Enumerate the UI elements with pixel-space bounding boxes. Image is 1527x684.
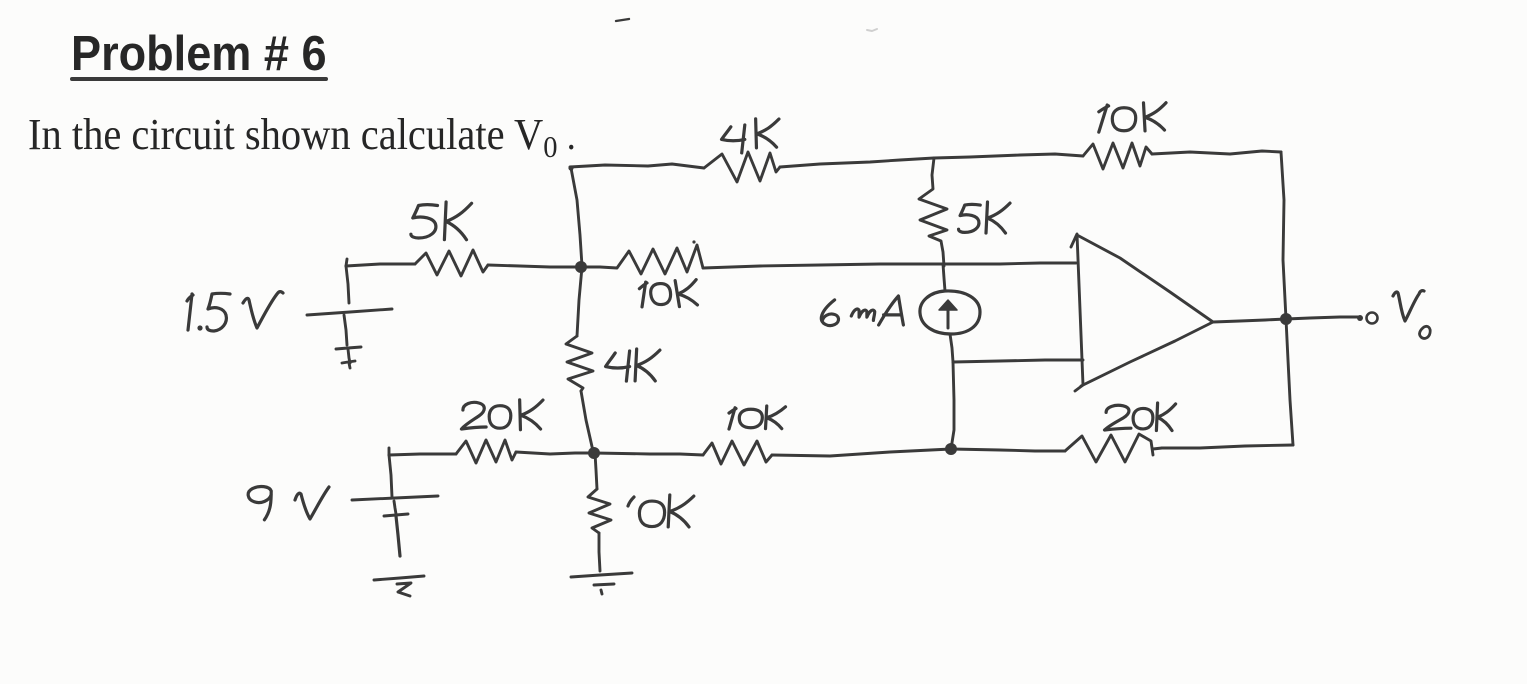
label 4K	[606, 351, 630, 381]
wire J3 to 20K	[951, 449, 1065, 451]
resistor R10 20K (feedback bottom)	[1065, 434, 1153, 462]
wire top horizontal right of 4K	[780, 158, 934, 167]
wire below source	[950, 334, 953, 362]
ground G2 tick	[601, 590, 602, 594]
battery B1 long plate	[307, 309, 392, 315]
wire 5K to J1	[488, 265, 581, 267]
wire inverting input	[953, 360, 1083, 362]
resistor R5 10K (middle)	[581, 245, 703, 274]
title underline	[70, 77, 328, 81]
wire bottom J2 to 10K	[594, 453, 703, 455]
battery B2 lower link	[394, 501, 396, 514]
terminal dot	[1357, 315, 1363, 321]
battery B2 short plate	[384, 514, 408, 516]
wire top to 10K	[934, 154, 1083, 158]
wire output to terminal	[1286, 317, 1358, 319]
battery B1 foot tick	[342, 361, 355, 363]
op-amp U1 bottom edge	[1081, 322, 1213, 386]
wire middle from battery	[346, 264, 415, 266]
current source I1 arrow stem	[947, 303, 950, 328]
ground G1 bar	[374, 576, 424, 580]
node J1	[575, 261, 587, 273]
ground G2 bar	[571, 573, 632, 577]
wire 4K to J2	[581, 391, 593, 451]
wire left vertical (top tee to J1)	[571, 168, 582, 266]
wire 20K to J2	[516, 452, 594, 454]
node top tee	[568, 165, 573, 170]
resistor R1 4K (top)	[704, 152, 780, 182]
resistor R2 10K (feedback top)	[1083, 143, 1152, 169]
wire 10K to ground	[599, 533, 600, 571]
label 5K	[411, 205, 438, 238]
wire bottom-left from 9V	[389, 454, 456, 455]
battery B2 long plate	[352, 496, 438, 500]
ground G1 squiggle	[397, 583, 411, 596]
wire source to J3	[951, 362, 954, 449]
wire top-right corner	[1152, 151, 1281, 154]
label 10K	[639, 282, 651, 307]
label V0 subscript o	[1420, 326, 1431, 338]
node output	[1280, 313, 1292, 325]
problem statement	[28, 109, 576, 165]
battery B2 9V stub	[389, 455, 392, 497]
corner nub at battery stub	[346, 259, 347, 266]
ground G2 dash	[594, 584, 614, 585]
wire 10K to J3	[772, 449, 951, 456]
op-amp U1 body	[1071, 234, 1083, 391]
wire 20K to bottom-right corner	[1162, 445, 1293, 448]
battery B1 1.5V stub	[346, 266, 349, 303]
battery B1 lower link	[344, 315, 347, 345]
battery B1 foot tail	[349, 363, 350, 368]
resistor R9 10K (bottom middle)	[703, 441, 772, 465]
current source I1 6mA stub top	[943, 264, 945, 291]
wire right vertical upper	[1281, 152, 1286, 319]
label 5K	[959, 204, 981, 232]
label 1.5V	[187, 294, 193, 330]
label 20K	[461, 402, 486, 429]
battery B1 short plate	[336, 347, 361, 349]
resistor R4 5K (input)	[415, 250, 488, 276]
title text	[71, 26, 327, 82]
terminal open circle	[1367, 313, 1378, 324]
wire middle to op-amp	[703, 263, 1076, 268]
label 10K	[628, 497, 634, 506]
battery B1 tail	[348, 349, 350, 363]
battery B2 tail	[396, 516, 400, 556]
node J3	[945, 443, 957, 455]
stray faint smudge	[867, 29, 877, 31]
corner nub at 9V stub	[388, 448, 391, 455]
wire output	[1213, 319, 1286, 322]
node J2	[588, 447, 600, 459]
wire J2 down	[595, 453, 597, 489]
label 20K	[1105, 405, 1131, 430]
wire top horizontal left	[570, 164, 704, 168]
stray pen dash top	[616, 19, 629, 21]
resistor R7 20K (bottom left)	[456, 440, 516, 463]
label 10K	[1099, 105, 1109, 132]
label 4K	[722, 125, 745, 153]
label 9V	[248, 487, 271, 520]
resistor R3 5K (vertical) with leads	[919, 158, 947, 266]
label V0 letter V	[1393, 291, 1424, 321]
pen dot above resistor	[692, 240, 695, 243]
resistor R8 10K (vertical bottom)	[588, 489, 611, 533]
label 6mA	[821, 300, 838, 326]
label 10K	[729, 408, 736, 429]
current source I1 ellipse	[920, 291, 980, 334]
op-amp U1 hypotenuse top	[1077, 235, 1213, 322]
current source I1 arrow head	[939, 300, 957, 310]
wire right vertical lower	[1286, 319, 1293, 445]
wire J1 down to 4K	[577, 267, 582, 336]
resistor R6 4K (vertical)	[566, 336, 593, 391]
